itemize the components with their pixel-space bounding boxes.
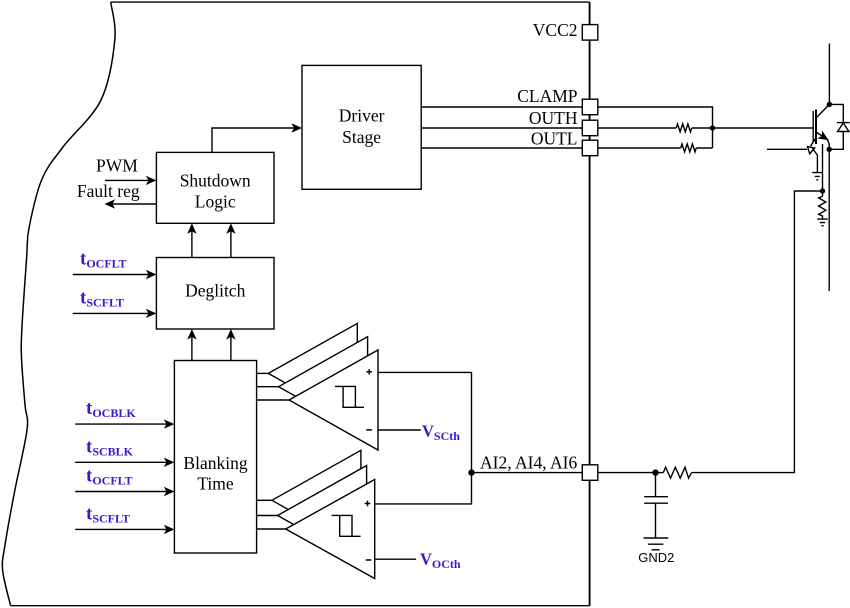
- wire comparator OC input stub middle: [257, 515, 278, 517]
- wire U2 plus output to node: [375, 473, 472, 504]
- wire kelvin sense line: [767, 148, 807, 150]
- arrowhead tOCFLT: [146, 270, 157, 279]
- svg-text:Stage: Stage: [342, 127, 381, 147]
- arrowhead tSCFLT2: [164, 525, 175, 534]
- node junction comparators to AI: [469, 470, 474, 475]
- node gate resistors junction: [711, 126, 715, 130]
- wire PWM input: [105, 179, 154, 181]
- svg-text:PWM: PWM: [96, 155, 138, 175]
- wire AI resistor to corner: [692, 191, 823, 473]
- arrowhead tOCFLT2: [164, 487, 175, 496]
- wire comparator SC input stub front: [257, 399, 290, 401]
- ground GND2: [644, 538, 669, 550]
- svg-text:tOCBLK: tOCBLK: [86, 398, 136, 420]
- diode freewheel triangle: [838, 123, 849, 132]
- wire tOCFLT2 input: [75, 491, 171, 493]
- minus sign U1: [366, 429, 372, 431]
- arrowhead into driver stage: [291, 123, 302, 132]
- arrowhead Fault reg (left): [105, 199, 116, 208]
- arrowhead deglitch-to-shutdown left: [187, 223, 196, 234]
- svg-text:Blanking: Blanking: [183, 453, 247, 473]
- wire OUTH resistor to node: [692, 127, 713, 129]
- IC top edge: [111, 1, 590, 3]
- wire comparator SC input stub back: [257, 372, 269, 374]
- wire deglitch-to-shutdown left: [191, 227, 193, 258]
- IGBT emitter diagonal: [816, 132, 828, 140]
- arrowhead tSCBLK: [164, 458, 175, 467]
- arrowhead blanking-to-deglitch right: [226, 329, 235, 340]
- wire gate node to IGBT gate: [713, 127, 814, 129]
- wire blanking-to-deglitch right: [230, 332, 232, 361]
- diode freewheel cathode bar: [837, 122, 850, 124]
- wire comparator OC input stub front: [257, 528, 286, 530]
- IGBT collector line: [828, 44, 830, 105]
- plus sign U1: [366, 369, 372, 374]
- wire blanking-to-deglitch left: [191, 332, 193, 361]
- comparator U1 middle triangle: [279, 337, 368, 437]
- IGBT emitter down lead: [828, 140, 830, 150]
- wire OUTL from driver stage: [421, 147, 582, 149]
- IGBT sense slash: [812, 148, 817, 155]
- IGBT collector diagonal: [816, 104, 829, 118]
- resistor OUTH gate: [676, 124, 692, 132]
- comparator U1 front triangle: [289, 350, 378, 450]
- wire emitter phase line: [828, 149, 830, 291]
- resistor shunt: [819, 196, 826, 219]
- svg-text:tSCFLT: tSCFLT: [80, 288, 124, 310]
- wire tSCFLT input: [73, 312, 154, 314]
- wire sense to ground: [816, 155, 818, 172]
- comparator U2 middle triangle: [278, 466, 367, 566]
- minus sign U2: [366, 559, 372, 561]
- svg-text:VOCth: VOCth: [420, 549, 461, 570]
- wire CLAMP from driver stage: [421, 106, 582, 108]
- wire U2 minus to VOCth: [375, 558, 416, 560]
- arrowhead blanking-to-deglitch left: [187, 329, 196, 340]
- node AI filter junction: [653, 470, 658, 475]
- wire OUTH from driver stage: [421, 127, 582, 129]
- node collector junction: [827, 102, 831, 106]
- block Shutdown Logic: [156, 152, 274, 223]
- resistor OUTL gate: [681, 144, 697, 152]
- pin AI2 AI4 AI6: [582, 465, 598, 481]
- svg-text:Time: Time: [197, 474, 234, 494]
- IGBT sense emitter open arrow: [808, 147, 815, 154]
- node emitter junction: [827, 147, 831, 151]
- svg-text:OUTH: OUTH: [529, 108, 578, 128]
- svg-text:Driver: Driver: [339, 106, 385, 126]
- svg-text:Deglitch: Deglitch: [185, 281, 246, 301]
- IGBT emitter arrowhead: [817, 130, 829, 140]
- wire AI node to pin: [472, 472, 583, 474]
- svg-text:OUTL: OUTL: [531, 129, 578, 149]
- svg-text:tOCFLT: tOCFLT: [86, 466, 133, 488]
- pin CLAMP: [582, 99, 598, 115]
- wire tSCFLT2 input: [75, 528, 171, 530]
- block Blanking Time: [174, 361, 256, 554]
- arrowhead deglitch-to-shutdown right: [226, 223, 235, 234]
- ground shunt: [817, 219, 828, 226]
- svg-text:Fault reg: Fault reg: [77, 181, 140, 201]
- IGBT body bar: [815, 110, 817, 145]
- wire tSCBLK input: [75, 461, 171, 463]
- wire OUTL resistor to node: [696, 147, 712, 149]
- svg-text:VSCth: VSCth: [422, 422, 460, 443]
- wire comparator OC input stub back: [257, 499, 272, 501]
- wire tOCBLK input: [75, 423, 171, 425]
- arrowhead tSCFLT: [146, 309, 157, 318]
- resistor AI sense: [663, 467, 691, 478]
- ground sense emitter: [812, 173, 822, 180]
- wire Fault reg output: [112, 203, 156, 205]
- wire shutdown-to-driver: [212, 128, 300, 152]
- svg-text:Logic: Logic: [195, 192, 236, 212]
- wire tOCFLT input: [73, 274, 154, 276]
- IC boundary torn-edge outline: [2, 2, 115, 606]
- capacitor AI filter bottom lead: [655, 503, 657, 538]
- svg-text:CLAMP: CLAMP: [517, 86, 578, 106]
- node shunt sense junction: [821, 189, 825, 193]
- svg-text:GND2: GND2: [638, 550, 674, 565]
- wire OUTH external lead: [598, 127, 676, 129]
- resistor AI sense lead-in: [656, 472, 664, 474]
- wire deglitch-to-shutdown right: [230, 227, 232, 258]
- block Driver Stage: [302, 65, 421, 189]
- wire freewheel diode top: [829, 104, 843, 122]
- wire freewheel diode bottom: [829, 132, 843, 150]
- wire CLAMP external: [598, 107, 713, 148]
- hysteresis symbol U2: [332, 515, 361, 536]
- capacitor AI filter top lead: [655, 473, 657, 497]
- svg-text:Shutdown: Shutdown: [180, 171, 251, 191]
- comparator U1 back triangle: [268, 323, 357, 423]
- IC bottom edge: [11, 605, 590, 607]
- wire comparator SC input stub middle: [257, 386, 279, 388]
- wire U1 plus output to node: [378, 372, 472, 472]
- resistor shunt lead: [822, 191, 824, 196]
- pin OUTL: [582, 140, 598, 156]
- IGBT sense emitter lead: [811, 138, 817, 146]
- pin OUTH: [582, 120, 598, 136]
- wire OUTL external lead: [598, 147, 681, 149]
- wire AI pin to node: [598, 472, 656, 474]
- IGBT gate bar: [812, 111, 814, 142]
- comparator U2 back triangle: [272, 450, 361, 550]
- svg-text:tSCBLK: tSCBLK: [86, 436, 134, 458]
- IC right edge: [589, 2, 591, 606]
- svg-text:tSCFLT: tSCFLT: [86, 504, 130, 526]
- pin VCC2: [582, 25, 598, 40]
- arrowhead tOCBLK: [164, 419, 175, 428]
- svg-text:AI2, AI4, AI6: AI2, AI4, AI6: [480, 452, 577, 472]
- arrowhead PWM: [146, 176, 157, 185]
- svg-text:tOCFLT: tOCFLT: [80, 249, 127, 271]
- hysteresis symbol U1: [335, 386, 364, 407]
- wire U1 minus to VSCth: [378, 429, 421, 431]
- svg-text:VCC2: VCC2: [533, 20, 578, 40]
- plus sign U2: [365, 501, 371, 506]
- comparator U2 front triangle: [286, 480, 375, 579]
- block Deglitch: [156, 258, 274, 330]
- wire shunt tap: [822, 144, 824, 191]
- capacitor AI filter plates: [644, 497, 668, 504]
